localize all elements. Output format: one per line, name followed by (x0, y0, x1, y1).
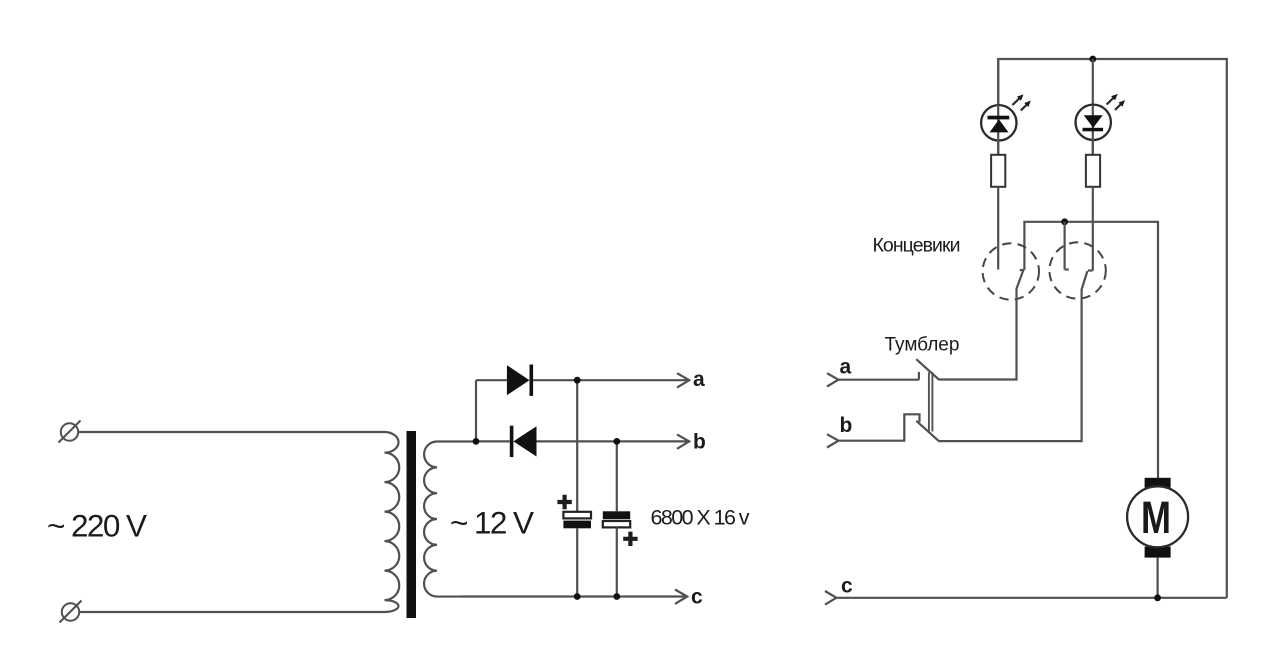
svg-text:a: a (840, 355, 852, 378)
svg-text:Концевики: Концевики (873, 235, 961, 257)
svg-text:b: b (840, 414, 853, 437)
svg-text:Тумблер: Тумблер (885, 335, 960, 356)
svg-text:~ 220 V: ~ 220 V (47, 508, 147, 544)
svg-text:~ 12 V: ~ 12 V (450, 505, 534, 541)
svg-text:c: c (691, 585, 703, 608)
svg-text:a: a (693, 368, 705, 391)
svg-text:6800 X 16 v: 6800 X 16 v (651, 506, 750, 530)
svg-text:b: b (693, 431, 706, 454)
svg-text:c: c (841, 575, 853, 598)
svg-text:M: M (1141, 492, 1171, 543)
